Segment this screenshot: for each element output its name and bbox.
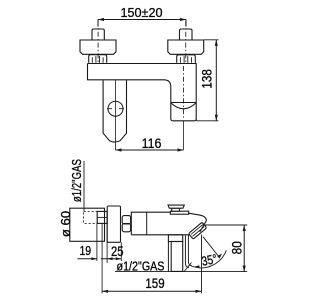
right fitting flange (168, 40, 204, 54)
wall union box (70, 208, 105, 241)
dimension 138 line (215, 40, 217, 121)
spout bracket stub (168, 235, 182, 242)
handle body (103, 80, 126, 142)
svg-text:ø1/2"GAS: ø1/2"GAS (71, 159, 84, 202)
label ø1/2"GAS (inlet, rotated) (71, 159, 84, 202)
right fitting nut facets (180, 56, 191, 63)
handle screw center marks (107, 108, 124, 110)
35° arc arrows (194, 254, 222, 269)
dimension 116 text (142, 136, 162, 152)
dimension 138 arrows (215, 40, 218, 121)
union connector (97, 211, 107, 223)
spout 35° axis ray (203, 237, 219, 258)
dimension 19 line (78, 258, 97, 260)
diverter stem (172, 208, 180, 211)
dimension 80 top extension (202, 224, 247, 226)
dimension 80 line (243, 225, 245, 272)
mixer body (side view) outline (131, 212, 206, 235)
dimension 138 text (199, 69, 215, 88)
dimension 150±20 text (121, 5, 163, 20)
dimension 80 text (229, 241, 245, 254)
diverter collar (170, 211, 188, 214)
inlet axis extension line (101, 223, 103, 293)
dimension 25 text (111, 244, 124, 259)
connection nut band 2 (122, 224, 130, 232)
svg-text:138: 138 (199, 69, 215, 88)
label 35° (200, 252, 218, 269)
svg-text:116: 116 (142, 136, 162, 152)
dimension 25 arrows (107, 257, 121, 260)
35° angle arc (190, 250, 226, 268)
svg-text:19: 19 (79, 245, 91, 258)
hose label leader underline (115, 271, 247, 273)
svg-text:150±20: 150±20 (121, 5, 163, 20)
dimension 116 line (116, 149, 184, 151)
dimension 19 25 extension lines (97, 223, 121, 263)
left fitting flange (80, 40, 116, 54)
dimension 138 extension lines (196, 40, 218, 121)
spout mouth arc (171, 103, 196, 109)
mixer body bar (front view) (88, 64, 197, 121)
handle screw circle (108, 101, 123, 116)
dimension 159 text (145, 275, 164, 291)
dimension 25 line (101, 258, 122, 260)
left fitting centerline (97, 21, 99, 64)
svg-text:80: 80 (229, 241, 245, 254)
dimension 150±20 arrows (98, 18, 186, 21)
hidden supply pipe (dashed) (84, 211, 98, 223)
svg-text:159: 159 (145, 275, 164, 291)
spout centerline (183, 66, 185, 120)
union connector mid line (97, 216, 107, 218)
escutcheon (side view) (107, 206, 120, 242)
spout (side view, angled) (188, 222, 206, 239)
dimension 150±20 line (98, 20, 186, 27)
hose outlet body (171, 242, 183, 272)
dimension 80 arrows (243, 225, 246, 272)
spout vertical reference ray (201, 235, 203, 294)
hose outlet left outer line (167, 242, 169, 272)
spout centerline extension (183, 121, 185, 150)
dimension 116 arrows (116, 148, 184, 151)
shower outlet profile (185, 235, 191, 268)
diverter knob cap (168, 205, 184, 208)
right fitting centerline (185, 21, 187, 64)
right fitting pipe end (180, 29, 193, 40)
spout mouth chord (171, 102, 196, 104)
body cap ring (146, 212, 148, 235)
handle centerline (115, 80, 117, 150)
left fitting nut (89, 55, 107, 63)
connection nut band 1 (122, 216, 130, 224)
inlet leader line (83, 161, 85, 212)
label ø 60 (rotated) (58, 211, 73, 237)
hose label leader diagonal (184, 263, 192, 272)
svg-text:35°: 35° (200, 252, 218, 269)
left fitting nut facets (92, 56, 103, 63)
dimension 159 line (102, 290, 201, 292)
svg-text:ø 60: ø 60 (58, 211, 73, 237)
svg-text:25: 25 (111, 244, 124, 259)
label ø1/2"GAS (shower hose) (117, 260, 165, 274)
right fitting nut (177, 55, 196, 63)
dimension 19 text (79, 245, 91, 258)
left fitting pipe end (92, 29, 104, 40)
dimension 19 arrow (91, 257, 97, 260)
dimension 159 arrows (102, 290, 201, 293)
